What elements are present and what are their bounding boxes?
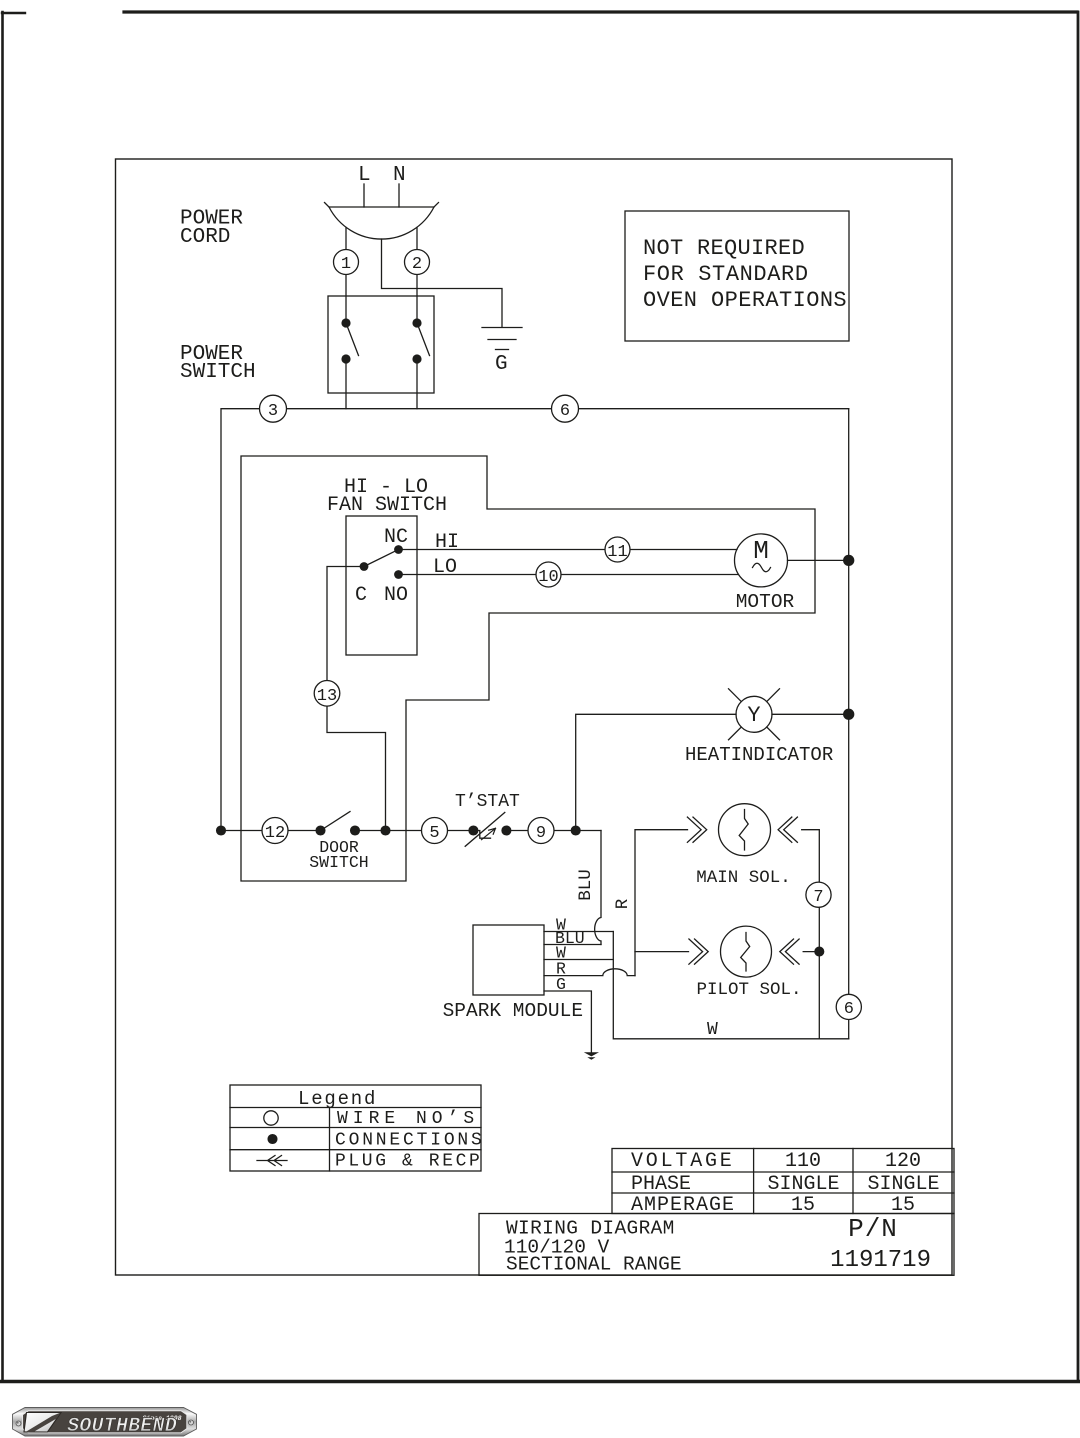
svg-text:15: 15 — [791, 1194, 815, 1217]
wire switch out 6 — [416, 359, 418, 409]
switch contact dots — [341, 318, 421, 578]
pilot solenoid L2 — [721, 926, 772, 977]
wire stub W2 — [544, 959, 613, 961]
svg-text:PILOT SOL.: PILOT SOL. — [696, 980, 801, 1000]
svg-text:FAN SWITCH: FAN SWITCH — [327, 494, 447, 517]
page border right — [1077, 12, 1080, 1380]
wire node row 3-6 — [221, 409, 849, 831]
motor sine — [753, 563, 771, 572]
wire 2 — [416, 228, 418, 250]
svg-text:MOTOR: MOTOR — [736, 591, 795, 613]
legend plug symbol — [257, 1156, 287, 1166]
svg-text:OVEN OPERATIONS: OVEN OPERATIONS — [643, 288, 847, 313]
svg-text:SINGLE: SINGLE — [867, 1173, 939, 1196]
svg-text:5: 5 — [429, 824, 439, 843]
legend table — [230, 1085, 481, 1171]
wire door to tstat — [355, 830, 473, 832]
power switch contacts — [341, 318, 350, 327]
note box NOT REQUIRED — [625, 211, 849, 341]
svg-text:PLUG & RECP: PLUG & RECP — [335, 1152, 482, 1172]
legend connection symbol — [268, 1135, 277, 1144]
svg-text:L: L — [358, 164, 371, 187]
svg-text:AMPERAGE: AMPERAGE — [631, 1194, 735, 1217]
svg-text:LO: LO — [433, 556, 457, 579]
TEXT-LABELS — [180, 164, 940, 1275]
fan switch contacts — [394, 545, 403, 554]
wire switch out 3 — [345, 359, 347, 409]
svg-text:BLU: BLU — [576, 869, 596, 901]
svg-text:C: C — [355, 584, 367, 607]
wire main row left — [221, 830, 321, 832]
svg-text:PHASE: PHASE — [631, 1173, 691, 1196]
svg-text:SINGLE: SINGLE — [767, 1173, 839, 1196]
node 12 — [262, 818, 288, 844]
svg-text:110: 110 — [785, 1150, 821, 1173]
diagram frame — [116, 159, 953, 1275]
node 13 — [314, 681, 340, 707]
voltage table — [612, 1149, 954, 1214]
node 3 — [260, 395, 287, 422]
wire stub R with hop — [544, 969, 635, 976]
node 9 — [528, 818, 554, 844]
fan switch box — [346, 516, 417, 655]
svg-text:HEATINDICATOR: HEATINDICATOR — [685, 744, 833, 766]
wire stub W1 — [544, 931, 613, 933]
wire right drop — [848, 409, 850, 1039]
wire heat indicator right — [772, 713, 849, 715]
svg-text:3: 3 — [268, 402, 278, 421]
svg-text:SPARK MODULE: SPARK MODULE — [443, 1000, 583, 1022]
svg-text:6: 6 — [844, 1000, 854, 1019]
svg-text:G: G — [495, 353, 508, 376]
svg-text:13: 13 — [317, 687, 337, 706]
svg-text:W: W — [707, 1020, 718, 1040]
wire LO — [399, 574, 739, 576]
main solenoid plug left — [687, 817, 706, 842]
svg-text:1: 1 — [341, 255, 351, 274]
power switch pole1 blade — [346, 323, 359, 356]
wire N prong — [398, 184, 400, 207]
wire 13 C branch — [327, 567, 386, 831]
main solenoid recp right — [778, 817, 797, 842]
svg-text:Legend: Legend — [298, 1088, 377, 1110]
wire number circles — [260, 250, 862, 1020]
node 5 — [422, 818, 448, 844]
wire stub G — [544, 991, 591, 1052]
wire W down — [613, 932, 848, 1039]
svg-text:CORD: CORD — [180, 226, 230, 249]
svg-text:SECTIONAL RANGE: SECTIONAL RANGE — [506, 1253, 682, 1275]
junction 13-row — [381, 826, 390, 835]
svg-text:NC: NC — [384, 526, 408, 549]
junction pilot-right — [815, 947, 824, 956]
wire tstat to node9 — [506, 830, 601, 832]
svg-text:FOR STANDARD: FOR STANDARD — [643, 262, 809, 287]
main solenoid L1 — [719, 804, 771, 856]
southbend logo — [13, 1408, 197, 1438]
svg-text:HI: HI — [435, 531, 459, 554]
junction heat-right — [844, 709, 854, 719]
svg-text:9: 9 — [536, 824, 546, 843]
node 7 — [806, 882, 831, 907]
node 6b — [836, 994, 861, 1019]
svg-text:WIRE NO’S: WIRE NO’S — [337, 1109, 479, 1129]
svg-text:6: 6 — [560, 402, 570, 421]
wire BLU vertical — [595, 831, 601, 945]
motor M1 circle — [735, 534, 788, 587]
svg-text:T’STAT: T’STAT — [455, 792, 520, 812]
ground G symbol — [482, 328, 522, 350]
heat indicator Y1 — [729, 689, 780, 740]
svg-text:Y: Y — [747, 703, 760, 728]
MAIN-DIAGRAM — [217, 184, 954, 1275]
title block — [479, 1214, 954, 1276]
door switch — [316, 812, 359, 835]
wire 7 to pilot junction — [818, 907, 820, 1039]
svg-text:2: 2 — [412, 255, 422, 274]
svg-text:7: 7 — [813, 888, 823, 907]
svg-text:120: 120 — [885, 1150, 921, 1173]
pilot solenoid recp right — [780, 939, 799, 964]
power switch pole2 blade — [417, 323, 430, 356]
svg-text:G: G — [556, 975, 566, 994]
wire motor right — [788, 559, 849, 561]
legend wire-no symbol — [264, 1111, 278, 1125]
svg-text:N: N — [393, 164, 406, 187]
page border bottom — [0, 1380, 1080, 1383]
wire pilot sol left — [635, 951, 689, 953]
wire L prong — [363, 184, 365, 207]
wire R main sol left — [635, 830, 688, 976]
spark module box — [473, 925, 544, 995]
node 2 — [405, 250, 430, 275]
junction node12 — [217, 826, 226, 835]
power switch box — [328, 296, 434, 393]
wire pilot sol right — [803, 951, 819, 953]
node 11 — [605, 537, 630, 562]
svg-text:NO: NO — [384, 584, 408, 607]
page border top — [124, 10, 1077, 13]
fan switch blade C-NC — [364, 550, 399, 567]
node 6 — [552, 395, 579, 422]
junction node9-right — [571, 826, 580, 835]
svg-text:12: 12 — [265, 824, 285, 843]
node 1 — [334, 250, 359, 275]
svg-text:R: R — [613, 898, 633, 909]
pilot solenoid plug left — [689, 939, 708, 964]
svg-text:VOLTAGE: VOLTAGE — [631, 1150, 735, 1173]
wire heat indicator left — [576, 714, 736, 830]
svg-text:MAIN SOL.: MAIN SOL. — [696, 868, 791, 888]
junction motor-right — [844, 555, 854, 565]
svg-text:SOUTHBEND: SOUTHBEND — [67, 1415, 177, 1438]
wire 1 — [345, 228, 347, 250]
svg-text:CONNECTIONS: CONNECTIONS — [335, 1131, 485, 1151]
svg-text:NOT REQUIRED: NOT REQUIRED — [643, 236, 805, 261]
enclosure outline — [241, 456, 815, 881]
svg-text:1191719: 1191719 — [830, 1247, 931, 1274]
svg-text:10: 10 — [538, 568, 558, 587]
wire cord ground — [382, 239, 503, 327]
wire HI — [399, 549, 738, 551]
svg-text:SWITCH: SWITCH — [309, 853, 368, 872]
power cord P1 — [325, 203, 439, 240]
wire stub BLU — [544, 944, 601, 946]
chassis ground — [584, 1052, 599, 1060]
svg-text:SWITCH: SWITCH — [180, 361, 256, 384]
circle numbers — [265, 255, 854, 1019]
svg-text:P/N: P/N — [848, 1214, 898, 1244]
svg-text:11: 11 — [607, 543, 627, 562]
page border left — [1, 12, 4, 1380]
wire main sol right — [802, 830, 820, 883]
svg-text:M: M — [753, 536, 769, 566]
node 10 — [536, 562, 561, 587]
t'stat TS1 — [465, 812, 511, 846]
